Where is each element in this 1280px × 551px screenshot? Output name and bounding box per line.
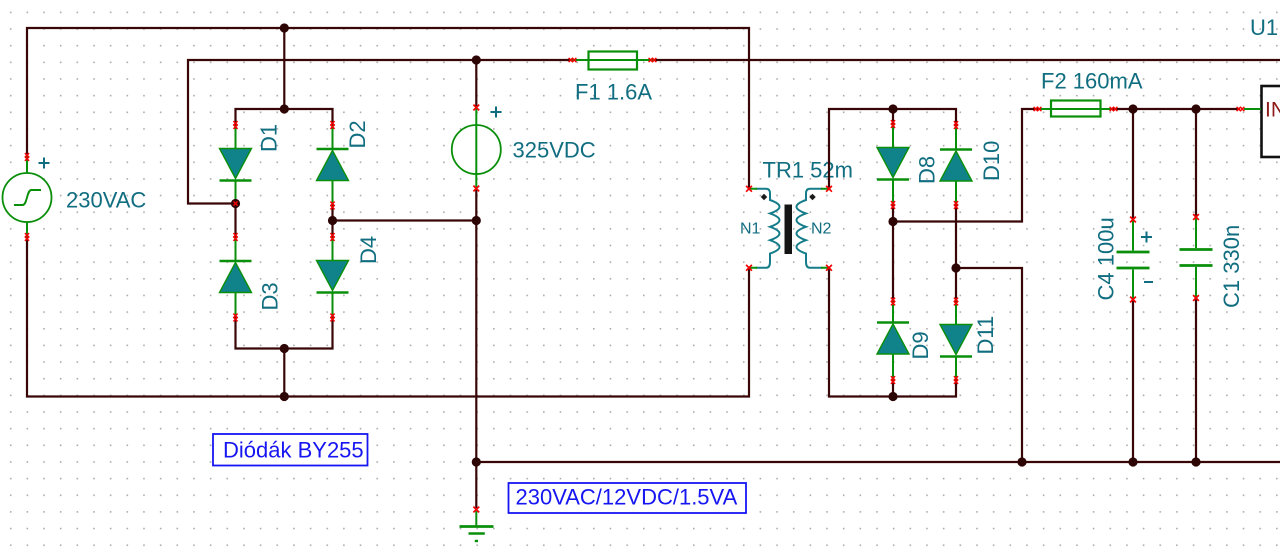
pin marks D2 bottom — [330, 202, 334, 210]
junction node rail A — [280, 392, 289, 401]
pin marks D9 top — [891, 298, 895, 306]
capacitor C4 leads — [1132, 220, 1134, 300]
wire 325VDC minus down to ground node — [475, 189, 477, 508]
junction node D1-D3 — [231, 199, 240, 208]
svg-text:C1 330n: C1 330n — [1219, 225, 1244, 308]
wire bridge1 mid junction to 325VDC column — [333, 219, 477, 221]
wire bridge1 top rail with stubs to D1 D2 — [236, 109, 333, 125]
ground bar 3 — [475, 540, 478, 542]
diode D10 (cathode up) — [940, 125, 972, 205]
svg-text:D9: D9 — [908, 331, 933, 359]
svg-text:D10: D10 — [979, 141, 1004, 181]
ground bar 2 — [469, 532, 485, 535]
V1 plus sign — [39, 158, 50, 169]
junction node ground rail C4 — [1128, 457, 1137, 466]
IC U1 box — [1262, 86, 1280, 157]
wire TR1 secondary bottom to bridge2 bottom rail — [829, 268, 956, 397]
325VDC lead line through circle — [475, 107, 477, 190]
C4 plates — [1117, 252, 1150, 268]
svg-text:325VDC: 325VDC — [513, 138, 596, 163]
diode D9 (cathode up) — [877, 302, 909, 381]
wire bridge2 right mid junction down to ground rail — [956, 268, 1022, 462]
svg-text:C4 100u: C4 100u — [1094, 217, 1119, 300]
wire stub bridge2 top junction to D8 — [892, 109, 894, 124]
TR1 green pin stubs — [748, 189, 830, 268]
junction node y60 at 325VDC — [472, 55, 481, 64]
junction node D2-D4 — [328, 216, 337, 225]
wire source bottom to bottom rail A to TR1 primary bottom — [27, 240, 749, 397]
TR1 polarity dot right — [809, 194, 816, 201]
ground symbol lead — [475, 511, 477, 527]
pin mark D1 bottom — [233, 201, 237, 205]
pin marks F1 left — [569, 58, 577, 62]
junction node ground rail C1 — [1191, 457, 1200, 466]
wire stub y60 junction to 325VDC plus pin — [475, 60, 477, 107]
pin marks F1 right — [649, 58, 657, 62]
svg-text:D1: D1 — [257, 124, 282, 152]
svg-text:230VAC/12VDC/1.5VA: 230VAC/12VDC/1.5VA — [516, 485, 738, 510]
wire C4 bottom branch — [1132, 300, 1134, 463]
F2 lead through — [1038, 108, 1112, 110]
325VDC plus sign — [491, 107, 502, 118]
pin marks D11 top — [954, 298, 958, 306]
pin mark TR1 secondary bottom — [826, 265, 832, 271]
voltage source V1 230VAC circle — [3, 156, 52, 240]
pin mark ground — [473, 507, 479, 513]
pin marks D3 top — [233, 233, 237, 241]
diode D11 (cathode down) — [940, 302, 972, 381]
pin marks D9 bottom — [891, 376, 895, 384]
junction node bridge1 bottom — [280, 344, 289, 353]
wire C1 top branch — [1195, 109, 1197, 217]
ground bar 1 — [460, 525, 494, 528]
junction node C4 top — [1128, 104, 1137, 113]
pin marks F2 left — [1034, 107, 1042, 111]
pin marks U1 IN — [1237, 107, 1245, 111]
text box 230VAC/12VDC/1.5VA — [509, 483, 747, 513]
svg-text:D4: D4 — [356, 236, 381, 264]
fuse F1 body — [571, 52, 653, 70]
wire top rail y=28 from source top to TR1 primary top — [27, 28, 749, 188]
diode D1 (cathode down) — [220, 125, 252, 204]
junction node C1 top — [1191, 104, 1200, 113]
pin marks D2 top — [330, 121, 334, 129]
junction node D8-D9 — [888, 217, 897, 226]
pin marks D3 bottom — [233, 314, 237, 322]
svg-text:N2: N2 — [811, 221, 832, 238]
TR1 primary winding N1 — [756, 189, 780, 268]
junction node ground tee — [472, 457, 481, 466]
wire ground rail y=462 — [476, 461, 1280, 463]
wire D8 cathode to D9 top — [892, 205, 894, 302]
C1 plates — [1180, 250, 1213, 266]
pin marks V1 bottom — [25, 233, 29, 241]
pin mark C1 top — [1193, 214, 1199, 220]
pin mark 325VDC top — [473, 105, 479, 111]
svg-text:D2: D2 — [345, 120, 370, 148]
wire y=60 right part after F1 — [653, 59, 1280, 61]
wire D2 to D4 through mid junction — [331, 206, 333, 238]
text box Diodak BY255 — [213, 434, 368, 466]
pin mark TR1 primary top — [746, 186, 752, 192]
svg-text:F1 1.6A: F1 1.6A — [575, 80, 652, 105]
TR1 polarity dot left — [761, 194, 768, 201]
svg-text:D8: D8 — [915, 156, 940, 184]
junction node bridge1 top — [280, 104, 289, 113]
wire bridge1 bottom junction down to rail A — [283, 349, 285, 397]
V1 bottom lead — [26, 222, 28, 241]
TR1 secondary winding N2 — [797, 189, 823, 268]
svg-text:230VAC: 230VAC — [66, 188, 146, 213]
pin marks D4 top — [330, 233, 334, 241]
wire D10 bottom to D11 top — [955, 205, 957, 302]
voltage source 325VDC circle — [452, 107, 502, 191]
wire bridge1 bottom rail D3-D4 — [236, 318, 333, 349]
diode D4 (cathode down) — [317, 237, 349, 318]
pin marks D8 top — [891, 120, 895, 128]
pin marks D4 bottom — [330, 314, 334, 322]
svg-text:Diódák BY255: Diódák BY255 — [223, 438, 364, 463]
svg-text:TR1 52m: TR1 52m — [763, 158, 853, 183]
wire stub D9 bottom to bridge2 bottom rail — [892, 380, 894, 397]
svg-text:D11: D11 — [973, 316, 998, 355]
wire C1 bottom branch — [1195, 298, 1197, 462]
pin mark TR1 secondary top — [826, 186, 832, 192]
junction node bridge2 bottom — [888, 392, 897, 401]
wire C4 top branch — [1132, 109, 1134, 220]
pin mark C4 top — [1130, 217, 1136, 223]
junction node ground rail x1022 — [1017, 457, 1026, 466]
junction node 325VDC minus — [472, 216, 481, 225]
svg-text:F2 160mA: F2 160mA — [1041, 69, 1143, 94]
wire F2 right to U1 IN pin — [1112, 108, 1240, 110]
wire TR1 secondary top to bridge2 top rail to D10 — [829, 109, 956, 189]
wire y=60 net: from x188 corner to right edge — [188, 60, 571, 204]
svg-text:D3: D3 — [258, 282, 283, 310]
pin marks D10 top — [954, 121, 958, 129]
pin mark TR1 primary bottom — [746, 265, 752, 271]
pin marks D1 top — [233, 121, 237, 129]
diode D3 (cathode up) — [220, 237, 252, 318]
pin mark 325VDC bottom — [473, 186, 479, 192]
pin marks F2 right — [1110, 107, 1118, 111]
wire bridge2 left mid junction to F2 — [893, 109, 1038, 222]
wire D1 cathode to D3 anode — [234, 204, 236, 238]
pin marks D8 bottom — [891, 201, 895, 209]
pin marks V1 top — [25, 153, 29, 161]
wire stub top junction to bridge1 top rail — [283, 28, 285, 109]
fuse F2 body — [1038, 101, 1112, 117]
svg-text:IN: IN — [1265, 99, 1280, 122]
V1 waveform symbol — [14, 190, 41, 205]
svg-text:N1: N1 — [740, 221, 761, 238]
junction node D10-D11 — [951, 263, 960, 272]
diode D8 (cathode down) — [877, 124, 909, 205]
pin mark C4 bottom — [1130, 297, 1136, 303]
capacitor C1 leads — [1195, 217, 1197, 298]
junction node top rail — [280, 23, 289, 32]
C4 plus sign — [1141, 232, 1152, 243]
diode D2 (cathode up) — [317, 125, 349, 206]
pin mark C1 bottom — [1193, 295, 1199, 301]
V1 top lead — [26, 156, 28, 174]
C4 minus sign — [1144, 281, 1153, 283]
junction node bridge2 top — [888, 104, 897, 113]
transformer TR1 core — [785, 205, 793, 255]
F1 lead through — [571, 59, 653, 61]
U1 IN pin stub — [1244, 108, 1261, 110]
svg-text:U1: U1 — [1250, 15, 1278, 40]
pin marks D11 bottom — [954, 376, 958, 384]
pin marks D10 bottom — [954, 201, 958, 209]
